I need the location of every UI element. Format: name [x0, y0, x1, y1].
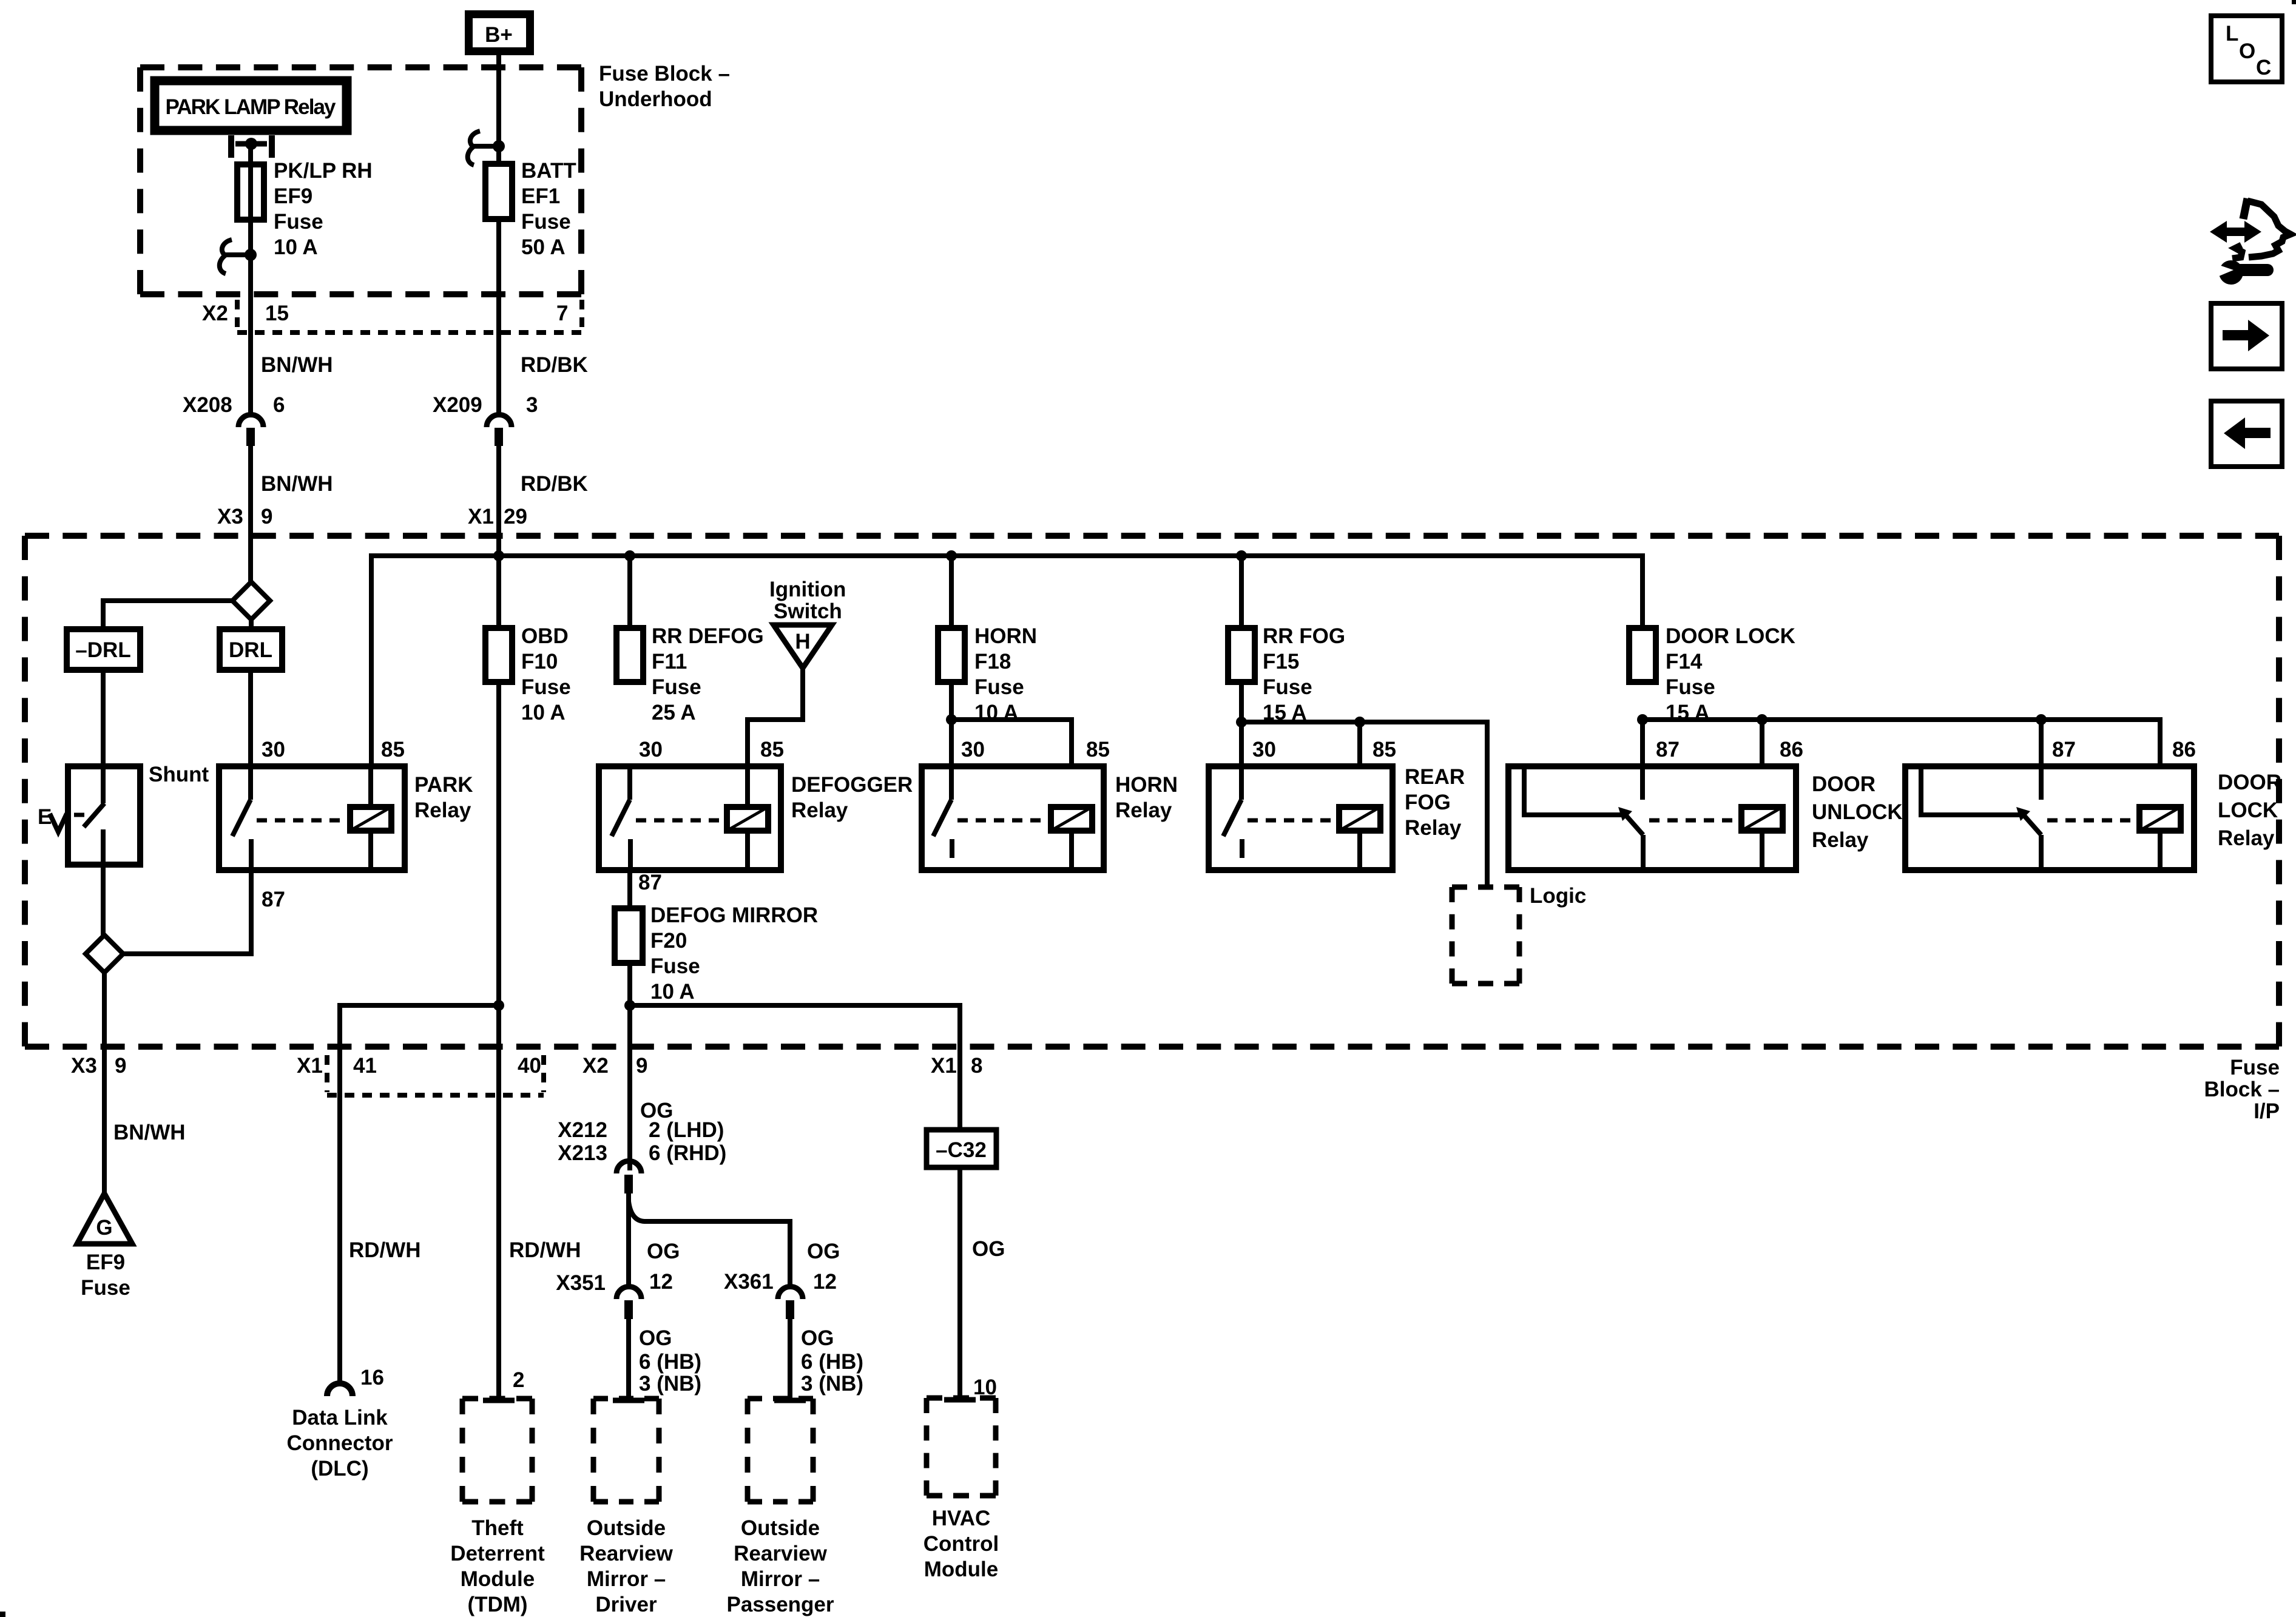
DOOR LOCK relay	[1905, 714, 2281, 870]
svg-text:Driver: Driver	[595, 1593, 657, 1616]
Data Link Connector label	[287, 1406, 393, 1480]
DOOR UNLOCK relay	[1508, 714, 2160, 870]
svg-text:X2: X2	[582, 1054, 609, 1078]
connector X1 dashed boundary	[327, 1055, 544, 1095]
svg-text:–DRL: –DRL	[75, 638, 130, 662]
svg-text:87: 87	[262, 888, 285, 911]
Shunt box	[68, 763, 209, 865]
svg-text:F15: F15	[1263, 650, 1299, 673]
svg-text:9: 9	[115, 1054, 126, 1078]
ground terminal G EF9 Fuse	[77, 1193, 132, 1300]
svg-text:C: C	[2256, 56, 2271, 79]
svg-text:L: L	[2226, 22, 2238, 46]
svg-text:X351: X351	[556, 1271, 606, 1295]
wire terminal to EF9 fuse	[248, 147, 253, 255]
svg-text:DEFOGGER: DEFOGGER	[791, 773, 913, 797]
svg-text:7: 7	[556, 302, 568, 325]
svg-text:30: 30	[639, 738, 663, 761]
connector X361 pin 12	[724, 1270, 837, 1319]
wire -DRL to Shunt	[101, 670, 106, 766]
svg-text:RD/WH: RD/WH	[509, 1238, 581, 1262]
connector DLC arc pin 16	[327, 1366, 384, 1396]
svg-text:Relay: Relay	[2218, 826, 2275, 850]
svg-text:85: 85	[1086, 738, 1110, 761]
svg-text:RD/BK: RD/BK	[521, 353, 588, 377]
svg-text:O: O	[2239, 39, 2255, 63]
svg-text:3 (NB): 3 (NB)	[801, 1372, 863, 1396]
wire X209 to X1-29	[496, 446, 501, 556]
svg-text:OBD: OBD	[521, 624, 569, 648]
svg-text:RD/BK: RD/BK	[521, 472, 588, 496]
wire F10 to TDM with junction	[496, 682, 501, 1399]
junction DLC branch	[493, 1000, 504, 1011]
svg-text:F11: F11	[652, 650, 687, 673]
svg-text:12: 12	[813, 1270, 837, 1294]
wire bus to F10	[496, 556, 501, 628]
connector -C32	[927, 1130, 996, 1167]
junction F18 branch	[946, 550, 957, 561]
svg-text:6 (RHD): 6 (RHD)	[649, 1141, 726, 1165]
svg-text:Relay: Relay	[1115, 798, 1172, 822]
svg-text:EF1: EF1	[521, 184, 560, 208]
wire diamond to -DRL	[103, 601, 232, 629]
Fuse Block - I/P dashed box	[25, 533, 2279, 539]
svg-text:DOOR: DOOR	[2218, 771, 2281, 794]
PARK LAMP Relay label box	[154, 80, 348, 131]
REAR FOG relay	[1209, 682, 1487, 887]
connector X208 pin 6	[183, 393, 285, 446]
svg-text:Mirror –: Mirror –	[741, 1567, 820, 1591]
wire diamond to DRL	[249, 619, 254, 629]
svg-text:X3: X3	[71, 1054, 97, 1078]
svg-text:Control: Control	[923, 1532, 999, 1556]
svg-text:X1: X1	[468, 505, 494, 528]
svg-text:PARK: PARK	[414, 773, 473, 797]
double arrow of hand icon	[2210, 221, 2261, 243]
fuse EF9 PK/LP RH 10 A	[237, 159, 373, 259]
svg-text:Passenger: Passenger	[726, 1593, 834, 1616]
connector X209 pin 3	[433, 393, 538, 446]
connector X351 pin 12	[556, 1270, 673, 1319]
svg-text:F20: F20	[650, 929, 687, 953]
wire split to mirror branches	[629, 1193, 790, 1289]
svg-text:HVAC: HVAC	[932, 1507, 991, 1530]
svg-text:X1: X1	[931, 1054, 957, 1078]
PARK relay	[219, 738, 473, 870]
svg-text:Fuse: Fuse	[81, 1276, 130, 1300]
wire junction to HVAC feed	[630, 1005, 960, 1130]
svg-text:86: 86	[2172, 738, 2196, 761]
wire F20 to mirrors	[627, 963, 632, 1170]
svg-text:Relay: Relay	[791, 798, 848, 822]
svg-text:EF9: EF9	[274, 184, 312, 208]
junction F11 branch	[624, 550, 635, 561]
svg-text:Module: Module	[924, 1558, 998, 1581]
splice diamond lower	[86, 935, 123, 973]
svg-text:Fuse: Fuse	[521, 210, 571, 234]
svg-text:Theft: Theft	[471, 1516, 524, 1540]
wire bus to F18	[949, 556, 954, 628]
svg-text:Deterrent: Deterrent	[450, 1542, 545, 1565]
pin label X1 8 bottom	[931, 1054, 982, 1078]
connector X212/X213 symbol	[616, 1161, 641, 1194]
svg-text:EF9: EF9	[86, 1251, 125, 1274]
fuse F10 OBD 10 A	[485, 624, 571, 724]
svg-text:Relay: Relay	[414, 798, 471, 822]
Fuse Block - I/P label	[2204, 1056, 2280, 1123]
svg-text:Fuse: Fuse	[652, 675, 701, 699]
svg-text:29: 29	[504, 505, 527, 528]
forward arrow box	[2211, 303, 2282, 369]
svg-text:Outside: Outside	[587, 1516, 666, 1540]
wire junction to DLC	[340, 1005, 499, 1384]
svg-text:OG: OG	[647, 1240, 680, 1263]
svg-text:8: 8	[971, 1054, 982, 1078]
svg-text:X213: X213	[558, 1141, 607, 1165]
svg-text:F10: F10	[521, 650, 558, 673]
svg-text:25 A: 25 A	[652, 701, 696, 724]
svg-text:REAR: REAR	[1405, 765, 1465, 789]
wire PARK 87 to splice diamond lower	[123, 870, 251, 954]
svg-text:10 A: 10 A	[274, 235, 318, 259]
svg-text:OG: OG	[972, 1237, 1005, 1261]
box -DRL	[67, 629, 140, 670]
svg-text:30: 30	[1252, 738, 1276, 761]
svg-text:9: 9	[261, 505, 272, 528]
wire EF1 to X209	[496, 219, 501, 416]
hand with wrench icon	[2232, 198, 2291, 258]
svg-text:Relay: Relay	[1405, 816, 1462, 840]
Ignition Switch H terminal	[769, 578, 846, 668]
wire C32 to HVAC	[957, 1167, 962, 1398]
wire EF9 to X208	[248, 255, 253, 416]
svg-text:50 A: 50 A	[521, 235, 566, 259]
svg-text:X1: X1	[297, 1054, 323, 1078]
svg-text:86: 86	[1780, 738, 1803, 761]
svg-text:Fuse: Fuse	[2230, 1056, 2280, 1079]
svg-text:Fuse: Fuse	[650, 954, 700, 978]
svg-text:Fuse: Fuse	[1666, 675, 1715, 699]
svg-text:Fuse: Fuse	[274, 210, 323, 234]
svg-text:OG: OG	[807, 1240, 840, 1263]
svg-text:85: 85	[760, 738, 784, 761]
Outside Rearview Mirror - Driver box	[579, 1399, 673, 1616]
svg-text:2: 2	[513, 1368, 524, 1392]
fuse EF1 BATT 50 A	[485, 159, 576, 259]
connector X212 X213 labels	[558, 1118, 726, 1165]
junction HVAC branch	[624, 1000, 635, 1011]
B+ battery terminal	[469, 15, 530, 52]
scan artifact top right	[2292, 0, 2296, 4]
svg-text:Logic: Logic	[1530, 884, 1586, 908]
svg-text:X3: X3	[217, 505, 243, 528]
wire ignition switch to DEFOGGER relay pin 85	[748, 668, 803, 766]
svg-text:DOOR: DOOR	[1812, 772, 1876, 796]
fuse F11 RR DEFOG 25 A	[616, 624, 764, 724]
svg-text:LOCK: LOCK	[2218, 798, 2278, 822]
svg-text:X209: X209	[433, 393, 482, 417]
shunt actuator symbol E	[38, 805, 67, 832]
svg-text:Fuse: Fuse	[1263, 675, 1312, 699]
svg-text:30: 30	[961, 738, 985, 761]
wire X361 to passenger mirror	[788, 1319, 792, 1399]
scan artifact bottom left	[0, 1612, 5, 1617]
svg-text:Rearview: Rearview	[734, 1542, 827, 1565]
svg-text:(TDM): (TDM)	[467, 1593, 527, 1616]
svg-text:85: 85	[381, 738, 405, 761]
svg-text:B+: B+	[485, 23, 513, 47]
Theft Deterrent Module box	[450, 1399, 545, 1616]
svg-text:Fuse: Fuse	[521, 675, 571, 699]
pin label X1 29 top	[468, 505, 527, 528]
wire labels OG 6 (HB) 3 (NB) driver	[639, 1326, 701, 1396]
svg-text:BATT: BATT	[521, 159, 576, 183]
main feed bus wire	[371, 556, 1643, 766]
svg-text:16: 16	[360, 1366, 384, 1389]
svg-text:Underhood: Underhood	[599, 87, 712, 111]
svg-text:Shunt: Shunt	[149, 763, 209, 786]
svg-text:I/P: I/P	[2254, 1099, 2280, 1123]
svg-text:BN/WH: BN/WH	[261, 353, 333, 377]
svg-text:6 (HB): 6 (HB)	[639, 1350, 701, 1374]
wire labels OG 6 (HB) 3 (NB) passenger	[801, 1326, 863, 1396]
wire bus to F15	[1239, 556, 1244, 628]
svg-text:UNLOCK: UNLOCK	[1812, 800, 1903, 824]
svg-text:FOG: FOG	[1405, 791, 1451, 814]
svg-text:PARK LAMP Relay: PARK LAMP Relay	[166, 95, 337, 119]
module wire T-bars	[483, 1400, 976, 1400]
svg-text:Outside: Outside	[741, 1516, 820, 1540]
svg-text:X208: X208	[183, 393, 232, 417]
pin label X3 9 bottom	[71, 1054, 126, 1078]
wire B+ to EF1 fuse	[496, 55, 501, 164]
svg-text:3: 3	[526, 393, 538, 417]
svg-text:X2: X2	[202, 302, 228, 325]
wrench of hand icon	[2212, 260, 2267, 285]
svg-text:Fuse Block –: Fuse Block –	[599, 62, 730, 86]
svg-text:HORN: HORN	[974, 624, 1037, 648]
svg-text:HORN: HORN	[1115, 773, 1178, 797]
wire bus to F11	[627, 556, 632, 628]
box DRL	[220, 629, 282, 670]
svg-text:DEFOG MIRROR: DEFOG MIRROR	[650, 903, 818, 927]
wire DEFOGGER 87 to F20	[627, 870, 632, 908]
svg-text:30: 30	[262, 738, 285, 761]
svg-text:G: G	[96, 1216, 112, 1240]
svg-text:Fuse: Fuse	[974, 675, 1024, 699]
svg-text:BN/WH: BN/WH	[113, 1121, 186, 1144]
svg-text:10 A: 10 A	[650, 980, 695, 1004]
svg-text:X361: X361	[724, 1270, 774, 1294]
svg-text:BN/WH: BN/WH	[261, 472, 333, 496]
wire X208 to X3-9	[248, 446, 253, 582]
svg-text:9: 9	[636, 1054, 647, 1078]
svg-text:Data Link: Data Link	[292, 1406, 388, 1430]
svg-text:Connector: Connector	[287, 1431, 393, 1455]
pin label X2 9 bottom	[582, 1054, 647, 1078]
svg-text:85: 85	[1373, 738, 1396, 761]
fuse block tap symbol below EF9	[220, 240, 257, 274]
svg-text:F14: F14	[1666, 650, 1703, 673]
svg-text:Block –: Block –	[2204, 1078, 2280, 1101]
svg-text:Switch: Switch	[774, 599, 842, 623]
wire X351 to driver mirror	[626, 1319, 631, 1399]
svg-text:3 (NB): 3 (NB)	[639, 1372, 701, 1396]
svg-text:RR DEFOG: RR DEFOG	[652, 624, 764, 648]
DEFOGGER relay	[599, 738, 913, 870]
svg-text:OG: OG	[801, 1326, 834, 1350]
svg-text:Module: Module	[461, 1567, 535, 1591]
Fuse Block - Underhood label	[599, 62, 730, 111]
relay output terminal symbol	[231, 135, 272, 158]
fuse F20 DEFOG MIRROR 10 A	[615, 903, 818, 1004]
svg-text:Mirror –: Mirror –	[587, 1567, 666, 1591]
wire DRL to PARK relay pin 30	[248, 670, 253, 766]
svg-text:87: 87	[638, 871, 662, 894]
svg-text:X212: X212	[558, 1118, 607, 1142]
splice diamond upper	[232, 582, 270, 619]
wire shunt to diamond lower	[101, 865, 106, 935]
svg-text:15: 15	[265, 302, 289, 325]
wire diamond lower to ground G	[102, 973, 107, 1193]
fuse F18 HORN 10 A	[938, 624, 1037, 724]
fuse block tap symbol above EF1	[468, 131, 505, 165]
svg-text:41: 41	[353, 1054, 377, 1078]
svg-text:–C32: –C32	[936, 1138, 987, 1162]
Outside Rearview Mirror - Passenger box	[726, 1399, 834, 1616]
junction RD/BK feed	[493, 550, 504, 561]
svg-text:RR FOG: RR FOG	[1263, 624, 1345, 648]
LOC legend box	[2211, 16, 2282, 82]
svg-text:RD/WH: RD/WH	[349, 1238, 421, 1262]
svg-text:6 (HB): 6 (HB)	[801, 1350, 863, 1374]
svg-text:OG: OG	[639, 1326, 672, 1350]
pin label X3 9 top	[217, 505, 272, 528]
svg-text:(DLC): (DLC)	[311, 1457, 368, 1480]
pin label X1 41 40 bottom	[297, 1054, 541, 1078]
svg-text:6: 6	[273, 393, 285, 417]
svg-text:12: 12	[649, 1270, 673, 1294]
svg-text:10 A: 10 A	[521, 701, 566, 724]
connector X2 dashed boundary	[237, 300, 582, 333]
svg-text:40: 40	[518, 1054, 541, 1078]
svg-text:F18: F18	[974, 650, 1011, 673]
Logic dashed box	[1452, 884, 1586, 984]
fuse F14 DOOR LOCK 15 A	[1629, 624, 1795, 724]
svg-text:Relay: Relay	[1812, 828, 1869, 852]
back arrow box	[2211, 401, 2282, 467]
svg-text:Ignition: Ignition	[769, 578, 846, 601]
svg-text:H: H	[795, 630, 810, 653]
Fuse Block - Underhood dashed box	[140, 64, 581, 70]
svg-text:DOOR LOCK: DOOR LOCK	[1666, 624, 1795, 648]
svg-text:2 (LHD): 2 (LHD)	[649, 1118, 724, 1142]
svg-text:87: 87	[2052, 738, 2076, 761]
junction F15 branch	[1236, 550, 1247, 561]
svg-text:DRL: DRL	[229, 638, 272, 662]
HVAC Control Module box	[923, 1398, 999, 1581]
svg-text:87: 87	[1656, 738, 1680, 761]
svg-text:PK/LP RH: PK/LP RH	[274, 159, 373, 183]
connector X2 pin row labels	[202, 302, 568, 325]
HORN relay	[922, 682, 1178, 870]
fuse F15 RR FOG 15 A	[1228, 624, 1345, 724]
svg-text:Rearview: Rearview	[579, 1542, 673, 1565]
